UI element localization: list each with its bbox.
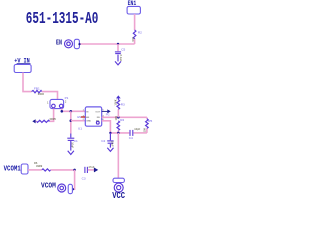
svg-text:PG: PG bbox=[106, 114, 110, 117]
testpoint VCOM pad bbox=[68, 184, 72, 193]
offpage arrow VOUT bbox=[94, 168, 98, 172]
ground C2 bbox=[107, 148, 113, 152]
testpoint EN circle bbox=[65, 40, 73, 48]
resistor R6 bbox=[42, 169, 51, 171]
node VIN-IC bbox=[61, 110, 64, 113]
wire EN1 to R2 bbox=[134, 14, 136, 30]
wire jumper pin2 to IC bbox=[62, 109, 86, 112]
node EN pin bbox=[78, 43, 80, 45]
U1 pin names left bbox=[86, 111, 91, 122]
capacitor C3 series bbox=[85, 167, 88, 173]
svg-text:R5: R5 bbox=[148, 119, 152, 123]
resistor R4 bottom bbox=[117, 121, 120, 131]
svg-text:FB1: FB1 bbox=[34, 86, 40, 90]
wire C3 to arrow bbox=[88, 169, 94, 171]
svg-text:EN: EN bbox=[77, 115, 81, 119]
svg-text:EN: EN bbox=[86, 117, 89, 119]
svg-text:2: 2 bbox=[65, 100, 67, 104]
wire jumper pin1 down bbox=[50, 109, 54, 122]
svg-text:R4: R4 bbox=[120, 118, 124, 122]
svg-text:600R: 600R bbox=[38, 92, 44, 96]
svg-text:GND: GND bbox=[86, 121, 91, 123]
wire R4 to rail bbox=[117, 130, 119, 133]
port +V_IN bbox=[14, 65, 31, 73]
wire +V_IN down bbox=[23, 73, 32, 92]
resistor R5 right bbox=[146, 117, 148, 118]
port VCOM1 label bbox=[4, 164, 21, 173]
svg-text:C5: C5 bbox=[121, 48, 125, 52]
wire R1 to arrow bbox=[35, 120, 36, 122]
svg-text:PG: PG bbox=[96, 121, 99, 123]
resistor R1 sense bbox=[37, 120, 50, 122]
power VCC arrow bbox=[116, 95, 121, 98]
svg-text:VCOM1: VCOM1 bbox=[4, 164, 21, 173]
node PG rail bbox=[109, 132, 111, 134]
svg-text:VCC: VCC bbox=[112, 191, 125, 200]
svg-text:10pF: 10pF bbox=[134, 127, 140, 131]
terminal VCC pad bbox=[113, 178, 124, 182]
svg-text:VCOM: VCOM bbox=[41, 182, 56, 191]
wire EN rail bbox=[80, 43, 135, 45]
wire to IC pin3 bbox=[71, 120, 86, 122]
wire R6 to junction bbox=[51, 169, 75, 171]
offpage arrow left bbox=[32, 119, 35, 123]
ground C1 bbox=[68, 151, 74, 155]
svg-text:0.1uF: 0.1uF bbox=[119, 55, 123, 62]
wire FB1 to jumper bbox=[42, 92, 58, 100]
terminal VCC label bbox=[112, 191, 125, 201]
wire C2 to gnd bbox=[109, 144, 111, 148]
node EN junction bbox=[117, 43, 119, 45]
svg-text:C2: C2 bbox=[101, 139, 105, 143]
port VCOM1 bbox=[21, 164, 28, 174]
svg-text:R3: R3 bbox=[121, 102, 125, 106]
jumper P1 bbox=[50, 99, 64, 108]
svg-text:EN: EN bbox=[56, 39, 62, 47]
node VCOM junction bbox=[73, 169, 76, 172]
wire R2 to EN rail bbox=[134, 39, 136, 44]
wire OUT arrow bbox=[102, 110, 108, 112]
title 651-1315-A0 bbox=[26, 10, 99, 29]
wire junction to testpoint bbox=[73, 170, 75, 189]
capacitor C4 series bbox=[130, 130, 133, 136]
U1 pin names right bbox=[95, 111, 100, 122]
capacitor C2 out bbox=[107, 133, 113, 143]
wire FB rail bbox=[102, 116, 147, 118]
node R4 rail bbox=[117, 132, 120, 135]
svg-text:10K: 10K bbox=[142, 128, 146, 133]
svg-text:100K: 100K bbox=[114, 99, 118, 105]
U1 pad circle bbox=[96, 121, 99, 124]
resistor R3 top bbox=[117, 100, 120, 110]
node branch bbox=[70, 110, 73, 113]
svg-text:R2: R2 bbox=[138, 31, 142, 35]
svg-text:OUT: OUT bbox=[95, 111, 100, 113]
svg-text:U1: U1 bbox=[78, 126, 82, 130]
offpage arrow right OUT bbox=[107, 109, 110, 113]
svg-text:C3: C3 bbox=[82, 176, 86, 180]
resistor R2 bbox=[133, 30, 136, 39]
node FB-R junction bbox=[117, 116, 120, 119]
wire EN cap branch bbox=[117, 44, 119, 51]
testpoint VCOM circle bbox=[58, 184, 66, 192]
svg-text:47uF: 47uF bbox=[88, 165, 94, 169]
capacitor C5 bbox=[115, 52, 121, 54]
svg-text:651-1315-A0: 651-1315-A0 bbox=[26, 10, 99, 29]
wire PG down bbox=[102, 121, 111, 133]
svg-text:1: 1 bbox=[47, 100, 49, 104]
node pin3 bbox=[70, 119, 73, 122]
svg-text:49R9: 49R9 bbox=[36, 164, 43, 168]
svg-text:10uF: 10uF bbox=[110, 141, 114, 147]
svg-text:C4: C4 bbox=[129, 136, 133, 140]
op-amp U1 regulator body bbox=[85, 107, 101, 126]
port EN1 label bbox=[128, 0, 137, 7]
svg-text:P1: P1 bbox=[65, 96, 69, 100]
port EN1 bbox=[127, 6, 140, 14]
testpoint EN label bbox=[56, 39, 62, 47]
wire bottom rail right bbox=[134, 132, 147, 134]
svg-text:10K: 10K bbox=[114, 116, 118, 121]
wire R3 to junction bbox=[117, 109, 119, 117]
wire R5 to rail bbox=[146, 129, 148, 133]
terminal VCC circle bbox=[114, 183, 123, 192]
capacitor C1 bbox=[67, 134, 74, 141]
wire VCC terminal drop bbox=[117, 133, 119, 178]
svg-text:0R05: 0R05 bbox=[50, 117, 57, 121]
wire C5 to gnd bbox=[117, 55, 119, 62]
ground EN bbox=[115, 61, 121, 65]
ferrite bead FB1 bbox=[32, 90, 42, 92]
testpoint VCOM label bbox=[41, 182, 56, 191]
wire branch down bbox=[70, 111, 72, 133]
wire bottom rail left bbox=[110, 132, 129, 134]
wire VCOM1 to R6 bbox=[28, 169, 42, 171]
node VCOM pin bbox=[72, 188, 74, 190]
U1 EN red stub bbox=[81, 116, 86, 118]
testpoint EN pad bbox=[74, 39, 79, 48]
U1 pin numbers bbox=[83, 110, 105, 121]
port +V_IN label bbox=[14, 57, 30, 64]
wire C1 to gnd bbox=[70, 141, 72, 151]
